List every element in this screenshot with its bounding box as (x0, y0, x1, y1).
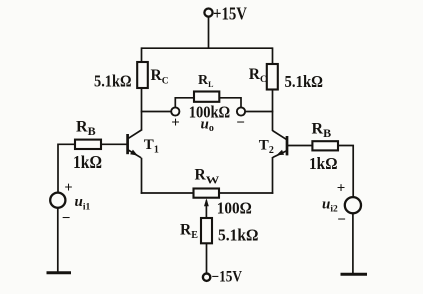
wire: uo- stub (245, 111, 273, 113)
wire: right collector branch top (272, 47, 274, 64)
ground right (341, 273, 368, 276)
resistor RC left (137, 62, 148, 88)
wire: ui1 to ground (57, 208, 59, 272)
terminal uo plus (171, 107, 179, 115)
wire: +15V feed (208, 17, 210, 49)
svg-text:1kΩ: 1kΩ (309, 154, 338, 173)
potentiometer RW (194, 189, 220, 218)
wire: ui2 to ground (352, 213, 354, 273)
resistor RC right (267, 64, 278, 90)
resistor RL (194, 92, 219, 102)
wire: RB right to source (338, 146, 353, 198)
wire: emitter rail right (219, 192, 273, 194)
wire: top rail (142, 47, 273, 49)
svg-text:100Ω: 100Ω (217, 198, 252, 217)
svg-text:5.1kΩ: 5.1kΩ (94, 72, 132, 91)
transistor T1 (128, 130, 142, 158)
wire: left collector branch top (141, 47, 143, 62)
svg-text:+: + (337, 181, 346, 197)
wire: RE to -15V (206, 243, 208, 273)
wire: right RC to collector (272, 89, 274, 131)
ground left (47, 271, 72, 274)
source ui1 (50, 193, 65, 208)
wire: RL right lead (219, 98, 241, 108)
wire: RB left to source (58, 144, 75, 192)
resistor RE (201, 218, 212, 243)
wire: T2 emitter down (272, 157, 274, 194)
source ui2 (345, 197, 361, 213)
wire: RL left lead (175, 98, 194, 108)
svg-text:−: − (62, 210, 71, 226)
wire: uo+ stub (141, 111, 172, 113)
+15V terminal (204, 9, 212, 17)
terminal uo minus (237, 107, 245, 115)
svg-text:1kΩ: 1kΩ (73, 152, 102, 172)
svg-text:5.1kΩ: 5.1kΩ (285, 72, 324, 91)
wire: T1 emitter down (141, 158, 143, 194)
svg-text:−: − (236, 115, 245, 131)
svg-text:+: + (171, 115, 180, 131)
wire: T2 base (288, 145, 313, 147)
resistor RB right (312, 141, 338, 150)
resistor RB left (75, 140, 101, 149)
svg-text:−: − (337, 212, 346, 228)
wire: emitter rail left (141, 192, 194, 194)
svg-text:5.1kΩ: 5.1kΩ (218, 225, 259, 244)
transistor T2 (273, 131, 287, 158)
svg-text:+: + (64, 180, 72, 196)
svg-text:−15V: −15V (212, 268, 243, 285)
svg-text:+15V: +15V (213, 3, 247, 23)
-15V terminal (203, 274, 210, 281)
svg-text:100kΩ: 100kΩ (189, 103, 231, 122)
wire: left RC to collector (141, 88, 143, 131)
wire: T1 base (101, 143, 127, 145)
